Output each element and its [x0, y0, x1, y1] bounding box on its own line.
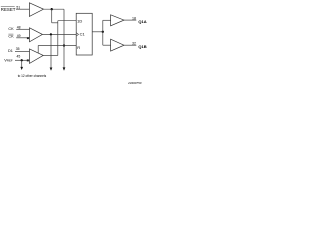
node junction dot on CK wire [50, 33, 52, 35]
wire Q1B output [124, 44, 136, 46]
op-amp U3 data comparator [30, 49, 44, 64]
svg-text:C1: C1 [80, 32, 86, 37]
svg-text:1D: 1D [77, 18, 82, 23]
node junction dot R line [63, 44, 65, 46]
op-amp U2 CK buffer [30, 28, 43, 42]
wire CKbar input [16, 37, 29, 39]
svg-text:35: 35 [16, 47, 20, 51]
wire RESET input [16, 8, 29, 10]
arrowhead VREF to other channels [20, 67, 23, 70]
svg-text:18: 18 [132, 16, 136, 20]
label R [77, 45, 80, 50]
node junction dot on RESET wire [51, 8, 53, 10]
wire output vertical split [102, 20, 104, 45]
wire VREF input [15, 59, 30, 61]
input square marker VREF [27, 59, 29, 61]
label 1D [77, 18, 82, 23]
node D1 label [8, 47, 20, 53]
svg-text:23460750: 23460750 [127, 81, 142, 85]
svg-text:49: 49 [17, 34, 21, 38]
wire 1D line into flip-flop [58, 20, 76, 22]
wire jog down from RESET dot [51, 9, 53, 23]
pin 51 [16, 5, 20, 9]
wire to Q1B buffer [103, 44, 111, 46]
pin 32 [132, 42, 136, 46]
op-amp U4 Q1A buffer [111, 15, 124, 26]
clock wedge pin C1 [76, 33, 78, 37]
node VREF label [4, 54, 20, 62]
svg-text:32: 32 [132, 42, 136, 46]
note document code [127, 81, 142, 85]
flip-flop U6 body [76, 13, 92, 55]
node junction dot output [102, 31, 104, 33]
wire CK vertical down [50, 34, 52, 68]
svg-text:51: 51 [16, 5, 20, 9]
svg-text:to 12 other channels: to 12 other channels [18, 74, 47, 78]
wire jog horizontal [52, 22, 58, 24]
wire U1 output [44, 8, 65, 10]
svg-text:Q1B: Q1B [138, 44, 146, 49]
wire CK input [16, 28, 29, 30]
wire VREF vertical down [21, 60, 23, 67]
svg-text:VREF: VREF [4, 57, 13, 62]
svg-text:RESET: RESET [1, 7, 16, 12]
op-amp U5 Q1B buffer [111, 39, 124, 51]
wire Q1A output [124, 19, 136, 21]
wire flip-flop output [92, 31, 103, 33]
wire R line into flip-flop [38, 45, 76, 47]
svg-text:D1: D1 [8, 49, 13, 53]
svg-text:45: 45 [17, 54, 21, 58]
wire U3 output [43, 55, 58, 57]
node Q1B label [138, 44, 146, 49]
svg-text:48: 48 [17, 25, 21, 29]
svg-text:R: R [77, 45, 80, 50]
node RESET label [1, 7, 16, 12]
wire to Q1A buffer [103, 19, 111, 21]
overline on CKbar [8, 33, 13, 35]
label C1 [80, 32, 86, 37]
note to 12 other channels [18, 74, 47, 78]
input square marker CKbar [27, 37, 29, 39]
svg-text:CK: CK [8, 27, 14, 31]
arrowhead CK to other channels [50, 68, 53, 71]
op-amp U1 RESET buffer [29, 3, 43, 17]
wire U2 output to flip-flop C1 [42, 33, 76, 35]
node Q1A label [138, 19, 146, 24]
wire RESET vertical down [63, 9, 65, 68]
node CKbar label [8, 34, 20, 39]
svg-text:Q1A: Q1A [138, 19, 146, 24]
pin 18 [132, 16, 136, 20]
wire vertical D path [57, 21, 59, 56]
arrowhead RESET to other channels [63, 67, 66, 70]
wire D1 input [15, 51, 30, 53]
node junction dot on VREF wire [21, 59, 23, 61]
wire stub into gate3 top [37, 46, 39, 54]
overline on RESET [1, 6, 15, 8]
node CK label [8, 25, 20, 31]
svg-text:CK: CK [8, 35, 14, 39]
